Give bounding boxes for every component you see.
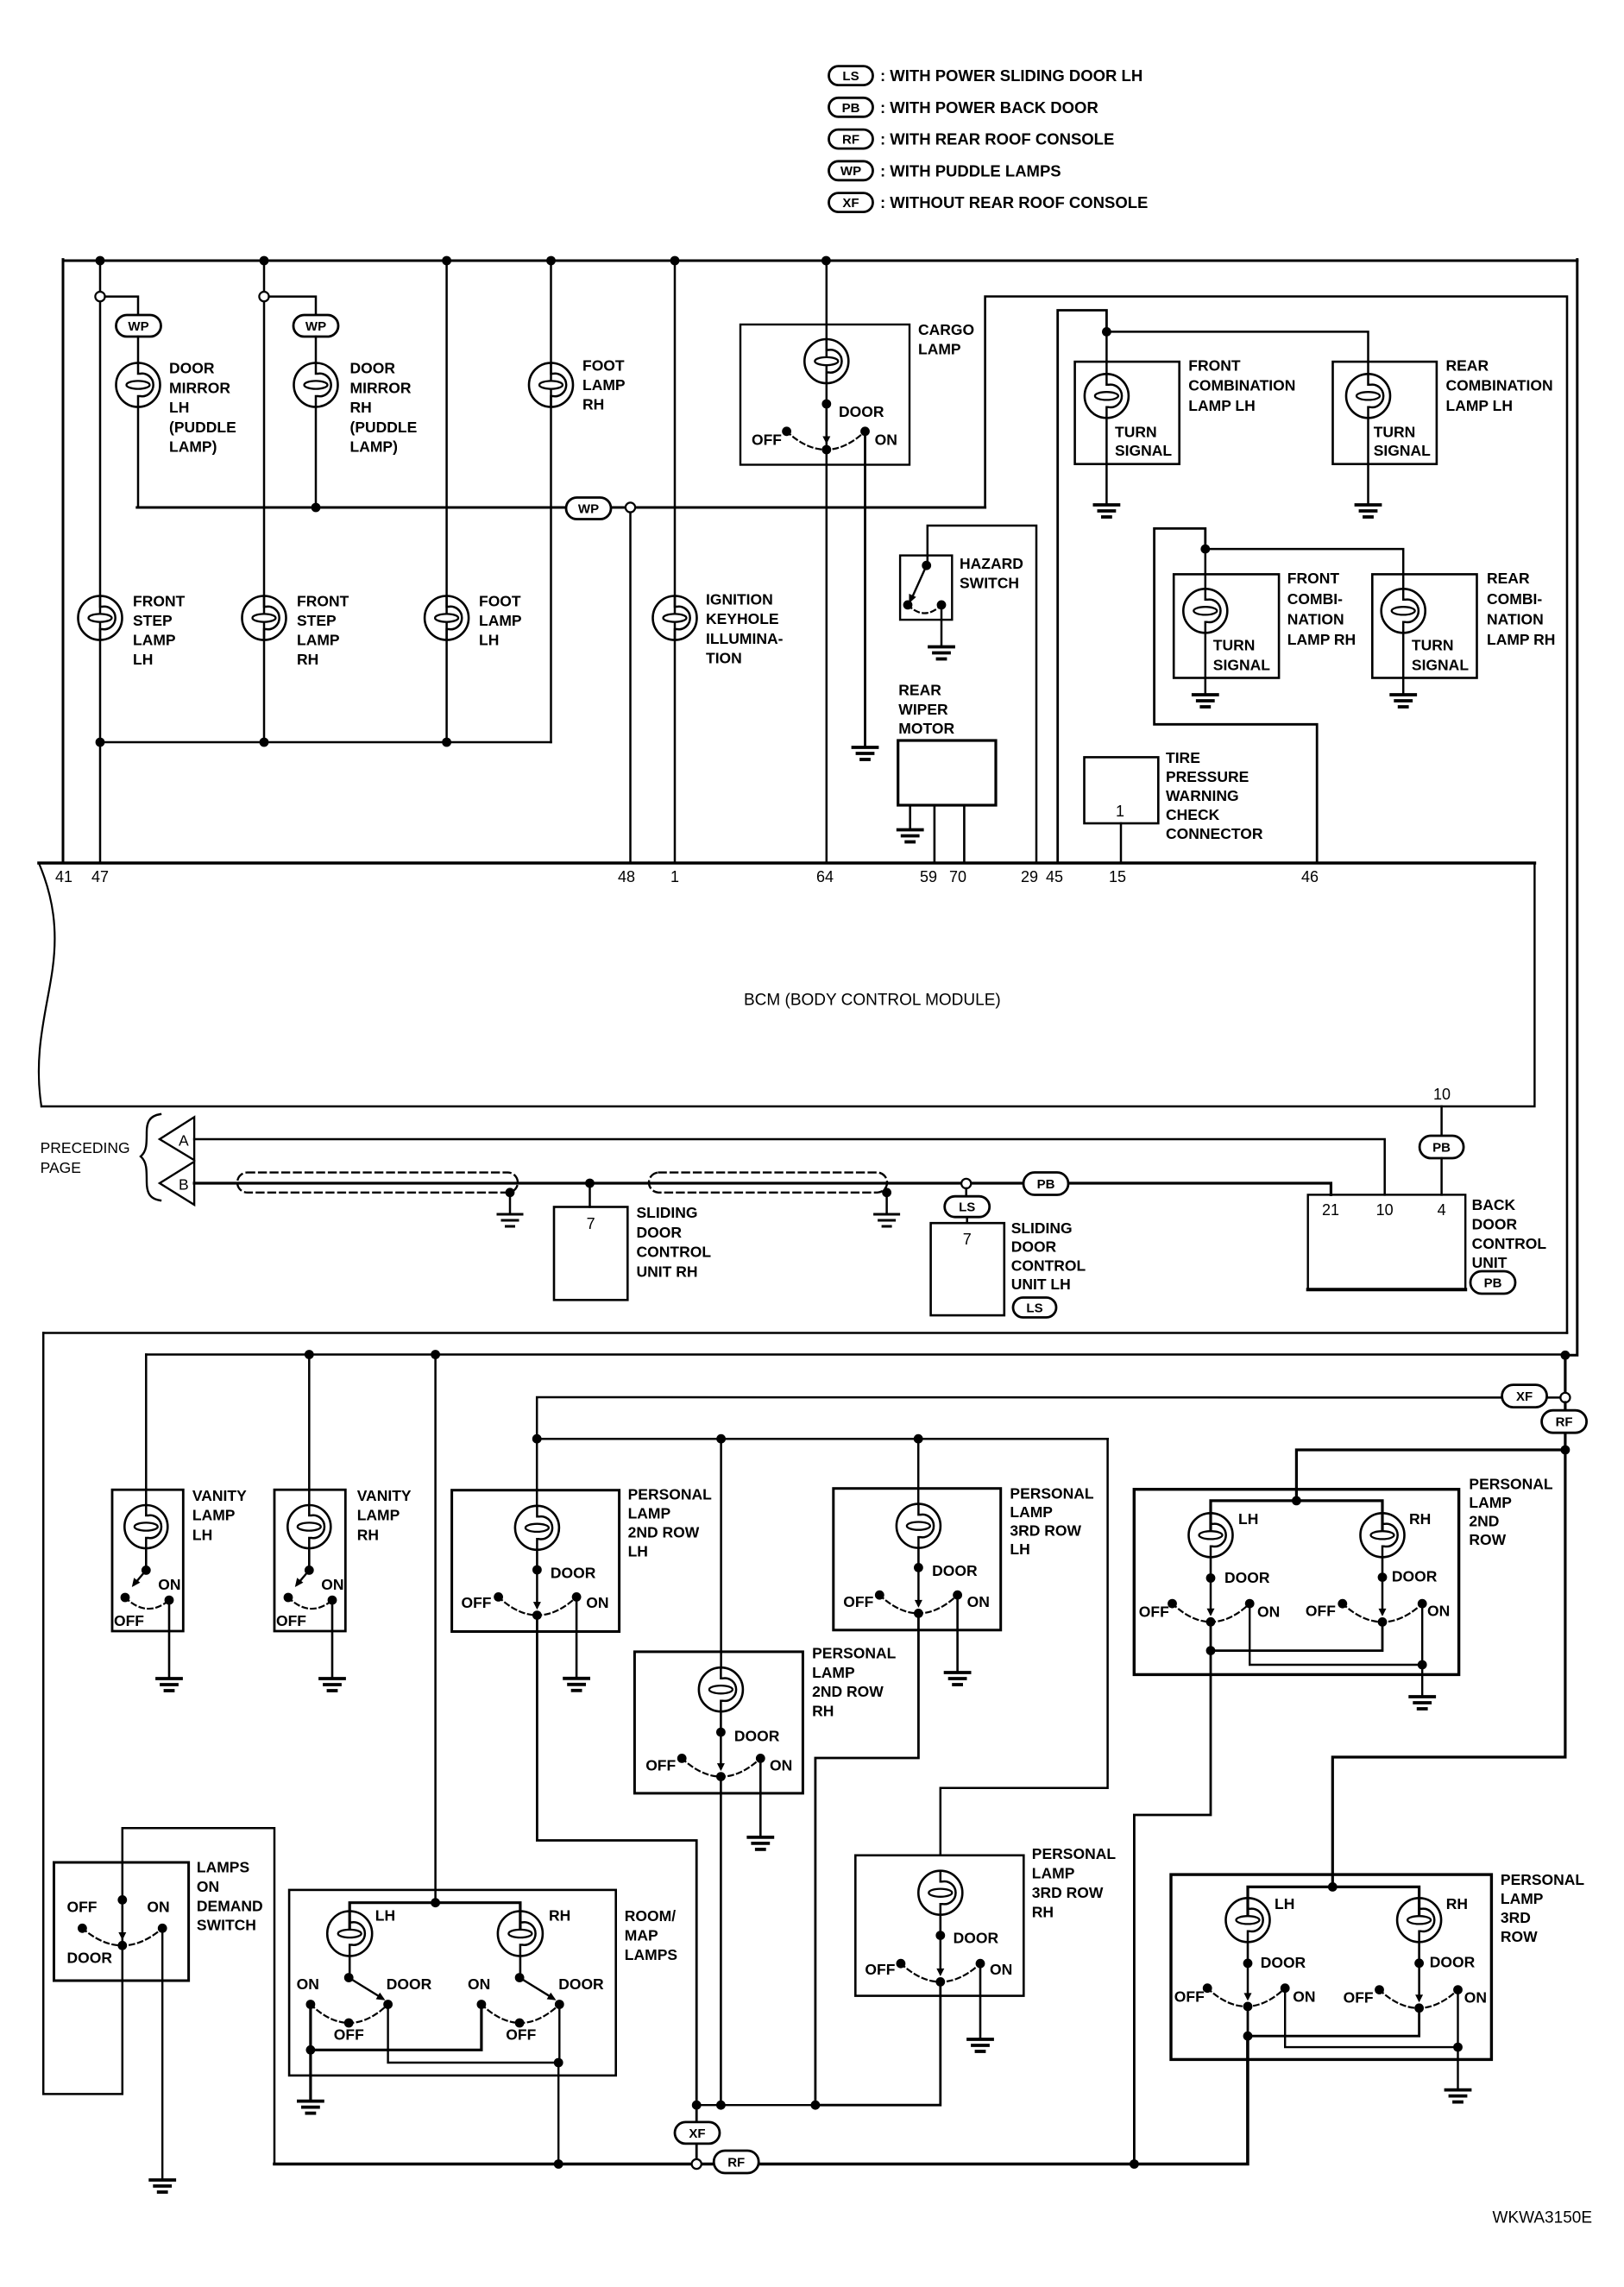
svg-text:ON: ON xyxy=(875,431,897,448)
wire: 3rd dual LH bulb to DOOR dot xyxy=(1247,1942,1249,1963)
svg-text:LAMP: LAMP xyxy=(357,1507,400,1524)
wire: room/map ON tie line xyxy=(311,2005,482,2051)
svg-text:45: 45 xyxy=(1046,868,1063,885)
lamp bulb: CARGO LAMP xyxy=(804,339,848,383)
svg-text:FOOT: FOOT xyxy=(479,593,521,610)
switch dashed arc: vanity LH xyxy=(125,1597,169,1609)
svg-text:VANITY: VANITY xyxy=(192,1487,247,1504)
svg-text:OFF: OFF xyxy=(752,431,782,448)
svg-text:3RD ROW: 3RD ROW xyxy=(1010,1522,1081,1539)
junction dot: 2nd row bus x=622 xyxy=(532,1434,542,1444)
wire: lamps-on-demand ON to ground xyxy=(161,1928,163,2180)
junction dot: hazard feed contact xyxy=(922,561,931,570)
wire: BCM pin 10 to PB pill xyxy=(1440,1106,1443,1137)
switch arm: room/map RH xyxy=(519,1978,553,1999)
ground: cargo lamp switch xyxy=(853,747,878,759)
svg-text:WP: WP xyxy=(578,501,599,516)
wire: room/map DOOR tie to bottom bus xyxy=(557,2063,559,2164)
junction dot: lamps-on-demand ON contact xyxy=(158,1924,167,1933)
component box: REAR COMBINATION LAMP RH xyxy=(1372,574,1476,677)
wire: bottom bus y=2507.5 xyxy=(274,2163,692,2166)
junction dot: rail x=517.6 xyxy=(442,738,451,747)
connector circle: mirror LH tap xyxy=(95,292,104,301)
junction dot: vanity LH OFF contact xyxy=(121,1593,130,1603)
component box: PERSONAL LAMP 3RD ROW LH xyxy=(834,1489,1001,1630)
svg-text:ON: ON xyxy=(147,1899,169,1916)
wire: 2nd row bus y=1667.2 xyxy=(537,1438,1107,1440)
svg-text:LAMP: LAMP xyxy=(1032,1865,1075,1882)
junction dot: vanity LH ON contact xyxy=(165,1596,174,1605)
junction dot: 2nd row dual feed xyxy=(1292,1496,1301,1506)
wire: tire pressure connector to BCM pin 15 xyxy=(1120,823,1123,863)
lamp bulb: room/map RH xyxy=(498,1912,543,1956)
svg-text:CHECK: CHECK xyxy=(1166,806,1220,823)
wire: vanity lamp RH feed xyxy=(308,1355,311,1505)
svg-text:FOOT: FOOT xyxy=(582,357,625,375)
switch: 3rd row dual RH xyxy=(1418,1963,1420,2000)
wire: front comb LH bulb to ground xyxy=(1105,418,1108,505)
junction dot: vanity bus joins right riser xyxy=(1561,1351,1570,1360)
svg-text:OFF: OFF xyxy=(843,1593,873,1610)
component box: TIRE PRESSURE WARNING CHECK CONNECTOR xyxy=(1085,757,1159,823)
svg-text:LAMP: LAMP xyxy=(297,632,340,649)
svg-text:46: 46 xyxy=(1301,868,1319,885)
junction dot: cargo bulb to switch xyxy=(821,400,831,409)
svg-text:ROW: ROW xyxy=(1469,1531,1506,1548)
svg-text:LAMP: LAMP xyxy=(1501,1890,1544,1907)
lamp bulb: FRONT STEP LAMP LH xyxy=(79,596,123,640)
svg-text:FRONT: FRONT xyxy=(133,593,186,610)
svg-text:LH: LH xyxy=(192,1526,212,1543)
wire: branch to door mirror LH xyxy=(105,297,138,315)
wire: room/map lamps feed xyxy=(434,1355,437,1903)
svg-text:LAMPS: LAMPS xyxy=(625,1946,677,1963)
component box: ROOM/MAP LAMPS xyxy=(289,1890,616,2076)
svg-text:OFF: OFF xyxy=(865,1961,895,1978)
wire: 2nd row dual ON tie to ground xyxy=(1421,1665,1423,1697)
component box: VANITY LAMP LH xyxy=(112,1490,183,1631)
wire: dual RH bulb to DOOR dot xyxy=(1382,1557,1384,1577)
legend pill WP xyxy=(829,161,873,180)
ground: vanity lamp LH xyxy=(157,1679,181,1691)
svg-text:REAR: REAR xyxy=(898,681,941,698)
svg-text:MIRROR: MIRROR xyxy=(350,379,412,396)
wire: mirror RH bulb down to WP line xyxy=(315,407,318,508)
svg-text:LAMP RH: LAMP RH xyxy=(1487,631,1555,648)
wire: room/map ON tie to ground xyxy=(309,2050,312,2101)
lamp bulb: personal 2nd row LH xyxy=(515,1506,559,1550)
svg-text:WKWA3150E: WKWA3150E xyxy=(1493,2208,1592,2227)
wire: vanity RH bulb to switch pivot xyxy=(308,1548,311,1570)
switch: 2nd row dual LH xyxy=(1210,1578,1212,1614)
svg-text:PERSONAL: PERSONAL xyxy=(628,1486,713,1503)
svg-text:DOOR: DOOR xyxy=(387,1975,432,1993)
junction dot: rail x=306 xyxy=(260,738,269,747)
lamp bulb: personal 2nd row dual RH xyxy=(1361,1513,1405,1557)
svg-text:SIGNAL: SIGNAL xyxy=(1412,656,1469,673)
wire: vanity bus y=1569.5 xyxy=(146,1353,1565,1356)
svg-text:WP: WP xyxy=(305,319,326,334)
svg-text:LAMP: LAMP xyxy=(918,341,961,358)
wire: bottom harness top edge y=1544.5 xyxy=(43,1332,1567,1334)
svg-text:OFF: OFF xyxy=(1306,1602,1336,1619)
option pill XF (right side) xyxy=(1502,1385,1547,1408)
svg-text:LAMP: LAMP xyxy=(1010,1503,1053,1521)
lamp bulb: DOOR MIRROR RH (PUDDLE LAMP) xyxy=(294,363,338,407)
svg-text:TURN: TURN xyxy=(1115,424,1157,441)
svg-text:LH: LH xyxy=(1010,1540,1029,1558)
svg-text:PERSONAL: PERSONAL xyxy=(1032,1845,1117,1862)
junction dot: shield 1 drain xyxy=(506,1188,515,1197)
svg-text:PB: PB xyxy=(1484,1276,1502,1290)
shield: dashed shield around wire B (right segment) xyxy=(649,1173,887,1193)
svg-text:XF: XF xyxy=(1516,1389,1533,1404)
svg-text:DOOR: DOOR xyxy=(932,1562,978,1579)
wire: rear comb RH bulb to ground xyxy=(1402,633,1405,695)
wire: wiper motor to BCM pin 59 xyxy=(934,805,936,863)
junction dot: 3rd row dual center tie xyxy=(1243,2032,1253,2041)
wire: PB pill to back door control unit pin 4 xyxy=(1440,1158,1443,1194)
svg-text:SWITCH: SWITCH xyxy=(197,1917,256,1934)
svg-text:FRONT: FRONT xyxy=(1287,570,1340,587)
lamp bulb: turn signal rear RH xyxy=(1382,589,1426,633)
switch: personal 3rd row LH xyxy=(917,1567,920,1604)
svg-text:COMBI-: COMBI- xyxy=(1487,590,1542,608)
junction dot: vanity RH ON contact xyxy=(328,1596,337,1605)
junction dot: top bus x=638.5 xyxy=(546,256,556,266)
wire: feed into front combination RH bulb xyxy=(1205,549,1207,589)
component box: VANITY LAMP RH xyxy=(274,1490,345,1631)
wire: hazard to ground xyxy=(941,605,943,647)
lamp bulb: FRONT STEP LAMP RH xyxy=(242,596,286,640)
component box: LAMPS ON DEMAND SWITCH xyxy=(54,1862,189,1981)
ground: shield 2 xyxy=(875,1214,899,1226)
svg-text:7: 7 xyxy=(587,1215,595,1232)
junction dot: 2nd row dual ON tie xyxy=(1418,1660,1427,1670)
wire: vanity RH ON to ground xyxy=(331,1600,334,1679)
svg-text:RH: RH xyxy=(357,1526,379,1543)
wire: lower return rail y=860 xyxy=(100,741,551,744)
wire: branch to rear combination RH xyxy=(1205,549,1403,589)
switch dashed arc: vanity RH xyxy=(288,1597,332,1609)
svg-text:RH: RH xyxy=(1032,1904,1054,1921)
svg-text:PAGE: PAGE xyxy=(41,1159,81,1176)
svg-text:DOOR: DOOR xyxy=(67,1950,113,1967)
svg-text:DOOR: DOOR xyxy=(839,403,884,420)
svg-text:2ND ROW: 2ND ROW xyxy=(812,1683,884,1700)
junction dot: XF line x=944.9 xyxy=(811,2101,821,2110)
svg-text:PRESSURE: PRESSURE xyxy=(1166,768,1249,785)
junction dot: lamps-on-demand DOOR contact xyxy=(117,1941,127,1950)
switch arm: hazard xyxy=(911,565,927,599)
svg-text:3RD ROW: 3RD ROW xyxy=(1032,1884,1104,1901)
svg-text:LS: LS xyxy=(1026,1301,1042,1315)
legend pill RF xyxy=(829,129,873,148)
svg-text:2ND: 2ND xyxy=(1469,1512,1499,1529)
option pill PB (on wire B) xyxy=(1023,1173,1068,1195)
svg-text:FRONT: FRONT xyxy=(297,593,349,610)
ground: personal 3rd row LH xyxy=(946,1673,970,1685)
svg-text:RH: RH xyxy=(1409,1510,1431,1528)
svg-text:DOOR: DOOR xyxy=(1224,1569,1270,1586)
svg-text:DOOR: DOOR xyxy=(734,1728,780,1745)
ground: personal 2nd row LH xyxy=(564,1679,589,1691)
wire: vanity LH bulb to switch pivot xyxy=(145,1548,148,1570)
junction dot: room/map RH ON contact xyxy=(477,2000,487,2009)
ground: personal 2nd row RH xyxy=(748,1837,772,1849)
wire: 3rd dual RH bulb to DOOR dot xyxy=(1418,1942,1420,1963)
svg-text:LS: LS xyxy=(959,1200,975,1215)
lamp bulb: FOOT LAMP LH xyxy=(425,596,469,640)
svg-text:HAZARD: HAZARD xyxy=(960,555,1023,572)
wire: 3rd row dual center tie xyxy=(1248,2007,1419,2036)
junction dot: DOOR (3rd row RH) xyxy=(935,1931,945,1940)
ground: rear combination RH xyxy=(1391,695,1415,707)
junction dot: DOOR (2nd row dual RH) xyxy=(1378,1572,1388,1582)
svg-text:PB: PB xyxy=(842,101,860,116)
wire: 3rd row LH DOOR center down-left-down to XF line xyxy=(815,1613,919,2105)
junction dot: vanity RH OFF contact xyxy=(284,1593,293,1603)
svg-text:SLIDING: SLIDING xyxy=(637,1204,698,1221)
wire: 3rd row dual RH ON down xyxy=(1457,1989,1458,2047)
wire: BCM pin 29 to hazard switch xyxy=(928,526,1036,863)
svg-text:: WITH PUDDLE LAMPS: : WITH PUDDLE LAMPS xyxy=(880,161,1061,180)
junction dot: DOOR tie on bottom bus xyxy=(554,2159,563,2169)
svg-text:LH: LH xyxy=(1275,1895,1294,1912)
svg-text:DOOR: DOOR xyxy=(558,1975,604,1993)
svg-text:COMBI-: COMBI- xyxy=(1287,590,1343,608)
svg-text:PERSONAL: PERSONAL xyxy=(1469,1475,1553,1492)
svg-text:ON: ON xyxy=(586,1594,608,1611)
svg-text:70: 70 xyxy=(949,868,966,885)
junction dot: top bus x=517.6 xyxy=(442,256,451,266)
junction dot: 2nd row bus x=835.6 xyxy=(716,1434,726,1444)
junction dot: top bus x=116 xyxy=(96,256,105,266)
svg-text:BCM (BODY CONTROL MODULE): BCM (BODY CONTROL MODULE) xyxy=(744,991,1001,1009)
switch dashed arc: room/map LH xyxy=(311,2005,388,2024)
svg-text:RH: RH xyxy=(1446,1895,1468,1912)
switch: 2nd row dual RH xyxy=(1382,1578,1384,1614)
svg-text:LH: LH xyxy=(479,632,499,649)
svg-text:KEYHOLE: KEYHOLE xyxy=(706,610,779,627)
switch dashed arc: room/map RH xyxy=(482,2005,559,2024)
svg-text:CARGO: CARGO xyxy=(918,321,974,338)
junction dot: DOOR (3rd row dual RH) xyxy=(1414,1958,1424,1968)
connector circle: bottom bus XF xyxy=(692,2159,702,2169)
wire: personal 2nd row RH feed xyxy=(720,1439,722,1667)
wire: bulb to DOOR dot (3rd row RH) xyxy=(940,1915,942,1936)
switch arm: vanity LH xyxy=(134,1570,146,1585)
connector circle: mirror RH tap xyxy=(259,292,268,301)
ground: personal 3rd row RH xyxy=(968,2039,992,2051)
svg-text:1: 1 xyxy=(670,868,679,885)
wire: 3rd row RH DOOR center down to XF line corner xyxy=(815,1981,941,2105)
svg-text:LAMP: LAMP xyxy=(133,632,176,649)
wire: WP line riser to room lamp bus xyxy=(985,297,1567,1333)
svg-text:TION: TION xyxy=(706,650,742,667)
svg-text:NATION: NATION xyxy=(1487,610,1544,627)
junction dot: center tie on bottom bus xyxy=(1130,2159,1139,2169)
svg-text:TURN: TURN xyxy=(1213,636,1256,653)
wire: 3rd row dual ON tie xyxy=(1285,1989,1457,2047)
legend pill LS xyxy=(829,66,873,85)
svg-text:SIGNAL: SIGNAL xyxy=(1213,656,1270,673)
wire: right riser down and over to 3rd row personal lamp feed xyxy=(1332,1450,1565,1887)
wire: bulb to DOOR dot (2nd row RH) xyxy=(720,1711,722,1732)
wire: shield 1 drain to ground xyxy=(509,1193,512,1214)
wire B: preceding page to back door control unit pin 21 (thick) xyxy=(194,1181,1023,1184)
svg-text:LH: LH xyxy=(628,1543,648,1560)
option pill LS (sliding door LH tap) xyxy=(945,1196,990,1217)
connector circle: WP line to BCM pin 48 xyxy=(626,502,635,512)
ground: hazard switch xyxy=(929,647,954,659)
wire: wiper motor ground stub xyxy=(909,805,911,830)
wire: bulb to DOOR dot (2nd row LH) xyxy=(536,1550,538,1570)
option pill WP (door mirror LH) xyxy=(116,315,161,337)
svg-text:SIGNAL: SIGNAL xyxy=(1374,442,1431,459)
svg-text:ON: ON xyxy=(990,1961,1012,1978)
lamp bulb: personal 3rd row LH xyxy=(897,1504,941,1548)
svg-text:REAR: REAR xyxy=(1487,570,1530,587)
svg-text:1: 1 xyxy=(1116,803,1124,820)
ground: vanity lamp RH xyxy=(320,1679,344,1691)
wire: BCM pin 45 to front combination lamp LH xyxy=(1058,311,1107,864)
wire: XF node down to XF pill xyxy=(696,2105,698,2122)
shield: dashed shield around wire B (left segment) xyxy=(237,1173,518,1193)
svg-text:10: 10 xyxy=(1376,1201,1394,1219)
ground: personal 2nd row dual xyxy=(1410,1697,1434,1709)
junction dot: 3rd row dual ON tie xyxy=(1453,2043,1463,2052)
switch arm: lamps on demand xyxy=(122,1906,124,1937)
lamp bulb: FOOT LAMP RH xyxy=(529,363,573,407)
svg-text:RF: RF xyxy=(727,2155,745,2170)
junction dot: rail x=116 xyxy=(96,738,105,747)
wire: room/map LH bulb to pivot xyxy=(349,1956,351,1978)
svg-text:NATION: NATION xyxy=(1287,610,1344,627)
svg-text:OFF: OFF xyxy=(506,2026,536,2044)
svg-text:OFF: OFF xyxy=(334,2026,364,2044)
svg-text:SIGNAL: SIGNAL xyxy=(1115,442,1172,459)
svg-text:: WITHOUT REAR ROOF CONSOLE: : WITHOUT REAR ROOF CONSOLE xyxy=(880,193,1148,211)
lamp bulb: personal 2nd row RH xyxy=(699,1667,743,1711)
junction dot: vanity RH pivot xyxy=(305,1566,314,1575)
svg-text:LH: LH xyxy=(169,399,189,416)
svg-text:2ND ROW: 2ND ROW xyxy=(628,1524,700,1541)
svg-text:LAMP: LAMP xyxy=(628,1505,671,1522)
svg-text:LAMP LH: LAMP LH xyxy=(1188,397,1255,414)
svg-text:: WITH REAR ROOF CONSOLE: : WITH REAR ROOF CONSOLE xyxy=(880,130,1114,148)
lamp bulb: personal 2nd row dual LH xyxy=(1189,1513,1233,1557)
svg-text:XF: XF xyxy=(842,196,859,211)
svg-text:DOOR: DOOR xyxy=(1261,1954,1306,1971)
svg-text:UNIT RH: UNIT RH xyxy=(637,1263,698,1280)
svg-text:TURN: TURN xyxy=(1374,424,1416,441)
wire: cargo ON contact to ground xyxy=(864,432,866,747)
junction dot: room/map RH OFF (on arc) xyxy=(515,2019,525,2028)
wire: personal 2nd row LH feed xyxy=(536,1439,538,1506)
arrow connector B (from preceding page) xyxy=(160,1162,194,1205)
wire: mirror LH bulb down to WP line corner xyxy=(137,407,140,508)
svg-text:LAMP: LAMP xyxy=(812,1664,855,1681)
junction dot: DOOR (2nd row RH) xyxy=(716,1728,726,1737)
legend pill PB xyxy=(829,98,873,117)
component box: BACK DOOR CONTROL UNIT xyxy=(1308,1194,1466,1289)
svg-text:OFF: OFF xyxy=(67,1899,98,1916)
junction dot: combination LH feed split xyxy=(1102,327,1111,337)
ground: room/map lamps xyxy=(299,2101,323,2114)
svg-text:TURN: TURN xyxy=(1412,636,1454,653)
switch dashed arc: lamps on demand xyxy=(82,1928,162,1945)
wire: 3rd row RH ON to ground xyxy=(979,1963,982,2039)
wire: room/map RH DOOR down xyxy=(558,2005,560,2063)
svg-text:(PUDDLE: (PUDDLE xyxy=(169,419,236,436)
wire: WP pill to mirror RH bulb xyxy=(315,337,318,363)
lamp bulb: DOOR MIRROR LH (PUDDLE LAMP) xyxy=(116,363,161,407)
svg-text:PERSONAL: PERSONAL xyxy=(1501,1871,1585,1888)
wire: vanity lamp LH feed xyxy=(145,1355,148,1505)
wire: wiper motor to BCM pin 70 xyxy=(963,805,966,863)
component box: SLIDING DOOR CONTROL UNIT LH xyxy=(931,1223,1004,1315)
wire: 2nd row dual center tie xyxy=(1211,1622,1382,1650)
svg-text:LS: LS xyxy=(842,69,859,84)
option pill LS (sliding door LH label) xyxy=(1013,1298,1056,1318)
component box: SLIDING DOOR CONTROL UNIT RH xyxy=(554,1207,627,1301)
wire: 3rd row dual internal bus xyxy=(1248,1887,1419,1919)
junction dot: room/map LH ON contact xyxy=(306,2000,316,2009)
svg-text:RF: RF xyxy=(842,133,859,148)
svg-text:MIRROR: MIRROR xyxy=(169,379,230,396)
option pill WP (inline) xyxy=(566,498,611,520)
svg-text:15: 15 xyxy=(1109,868,1126,885)
junction dot: combination RH feed split xyxy=(1200,545,1210,554)
svg-text:SWITCH: SWITCH xyxy=(960,575,1019,592)
svg-text:STEP: STEP xyxy=(133,612,173,629)
svg-text:DOOR: DOOR xyxy=(1430,1954,1476,1971)
svg-text:OFF: OFF xyxy=(462,1594,492,1611)
wire: 2nd row RH ON to ground xyxy=(759,1759,762,1837)
svg-text:: WITH POWER SLIDING DOOR LH: : WITH POWER SLIDING DOOR LH xyxy=(880,66,1142,85)
svg-text:ON: ON xyxy=(197,1878,219,1895)
svg-text:ON: ON xyxy=(468,1975,490,1993)
switch: 3rd row dual LH xyxy=(1247,1963,1249,1998)
svg-text:48: 48 xyxy=(618,868,635,885)
svg-text:LH: LH xyxy=(133,651,153,668)
lamp bulb: vanity RH xyxy=(287,1505,330,1548)
svg-text:WARNING: WARNING xyxy=(1166,787,1239,804)
svg-text:BACK: BACK xyxy=(1472,1196,1516,1213)
option pill RF (right riser) xyxy=(1542,1410,1587,1433)
svg-text:LAMP): LAMP) xyxy=(350,438,398,456)
wire: 2nd row LH ON to ground xyxy=(576,1597,578,1678)
svg-text:REAR: REAR xyxy=(1446,356,1489,374)
svg-text:CONNECTOR: CONNECTOR xyxy=(1166,825,1263,842)
option pill PB (pin 10 line) xyxy=(1419,1136,1463,1158)
wire: vanity LH ON to ground xyxy=(168,1600,171,1679)
lamp bulb: personal 3rd row RH xyxy=(918,1871,962,1915)
junction dot: lamps-on-demand feed contact xyxy=(117,1895,127,1905)
wire: personal 3rd row LH feed xyxy=(917,1439,920,1504)
lamp bulb: turn signal rear LH xyxy=(1346,374,1390,418)
switch arm: vanity RH xyxy=(297,1570,309,1585)
switch: personal 2nd row LH xyxy=(536,1570,538,1607)
svg-text:IGNITION: IGNITION xyxy=(706,590,773,608)
junction dot: WP line x=366 xyxy=(312,503,321,513)
svg-text:PB: PB xyxy=(1432,1140,1451,1155)
wire: 2nd row dual ON tie xyxy=(1249,1603,1422,1665)
svg-text:LAMPS: LAMPS xyxy=(197,1859,249,1876)
wire: 2nd row dual center down to jog xyxy=(1134,1651,1211,2164)
junction dot: XF node (x=807.2) xyxy=(692,2101,702,2110)
